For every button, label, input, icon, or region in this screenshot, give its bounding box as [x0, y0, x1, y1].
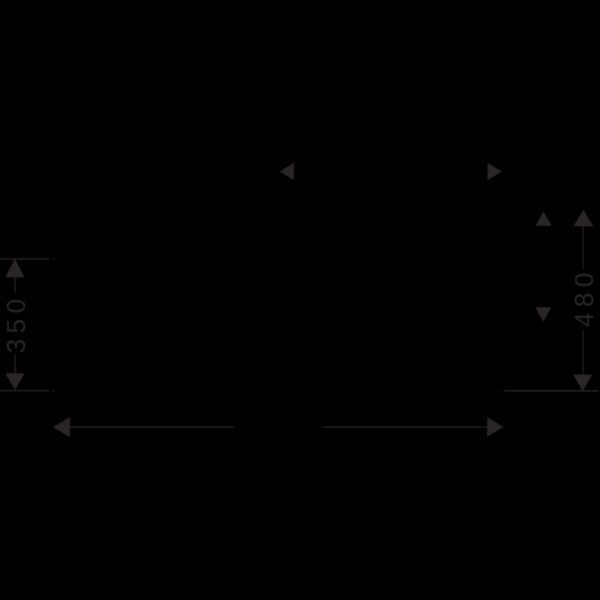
dim 480 line lower segment	[583, 330, 584, 375]
dim 350 arrow up	[5, 259, 24, 277]
bottom dim arrow right	[487, 417, 503, 436]
extension line top-left short dash	[52, 258, 56, 259]
bottom dim line left segment	[70, 427, 235, 428]
small arrowhead down (inner vertical reference)	[535, 307, 551, 321]
bottom dim line right segment	[323, 427, 487, 428]
extension line bottom-left short dash	[52, 390, 56, 391]
extension line top-left (350 dim upper reference)	[0, 258, 50, 259]
extension line bottom-right short dash	[500, 390, 502, 391]
extension line bottom-right (480 dim lower reference)	[504, 390, 599, 391]
top span arrow left	[280, 163, 294, 180]
svg-text:350: 350	[1, 293, 31, 353]
dim 480 arrow down	[573, 375, 592, 392]
extension line bottom-left (350 dim lower reference)	[0, 390, 50, 391]
svg-text:480: 480	[569, 267, 599, 327]
dim 480 arrow up	[574, 210, 594, 227]
bottom dim arrow left	[53, 417, 70, 437]
dim 350 line lower segment	[15, 354, 16, 373]
dim 480 line upper segment	[583, 226, 584, 269]
top span arrow right	[488, 163, 502, 180]
dim 350 line upper segment	[15, 277, 16, 294]
dim 350 arrow down	[5, 373, 24, 390]
small arrowhead up (inner vertical reference)	[536, 212, 552, 226]
